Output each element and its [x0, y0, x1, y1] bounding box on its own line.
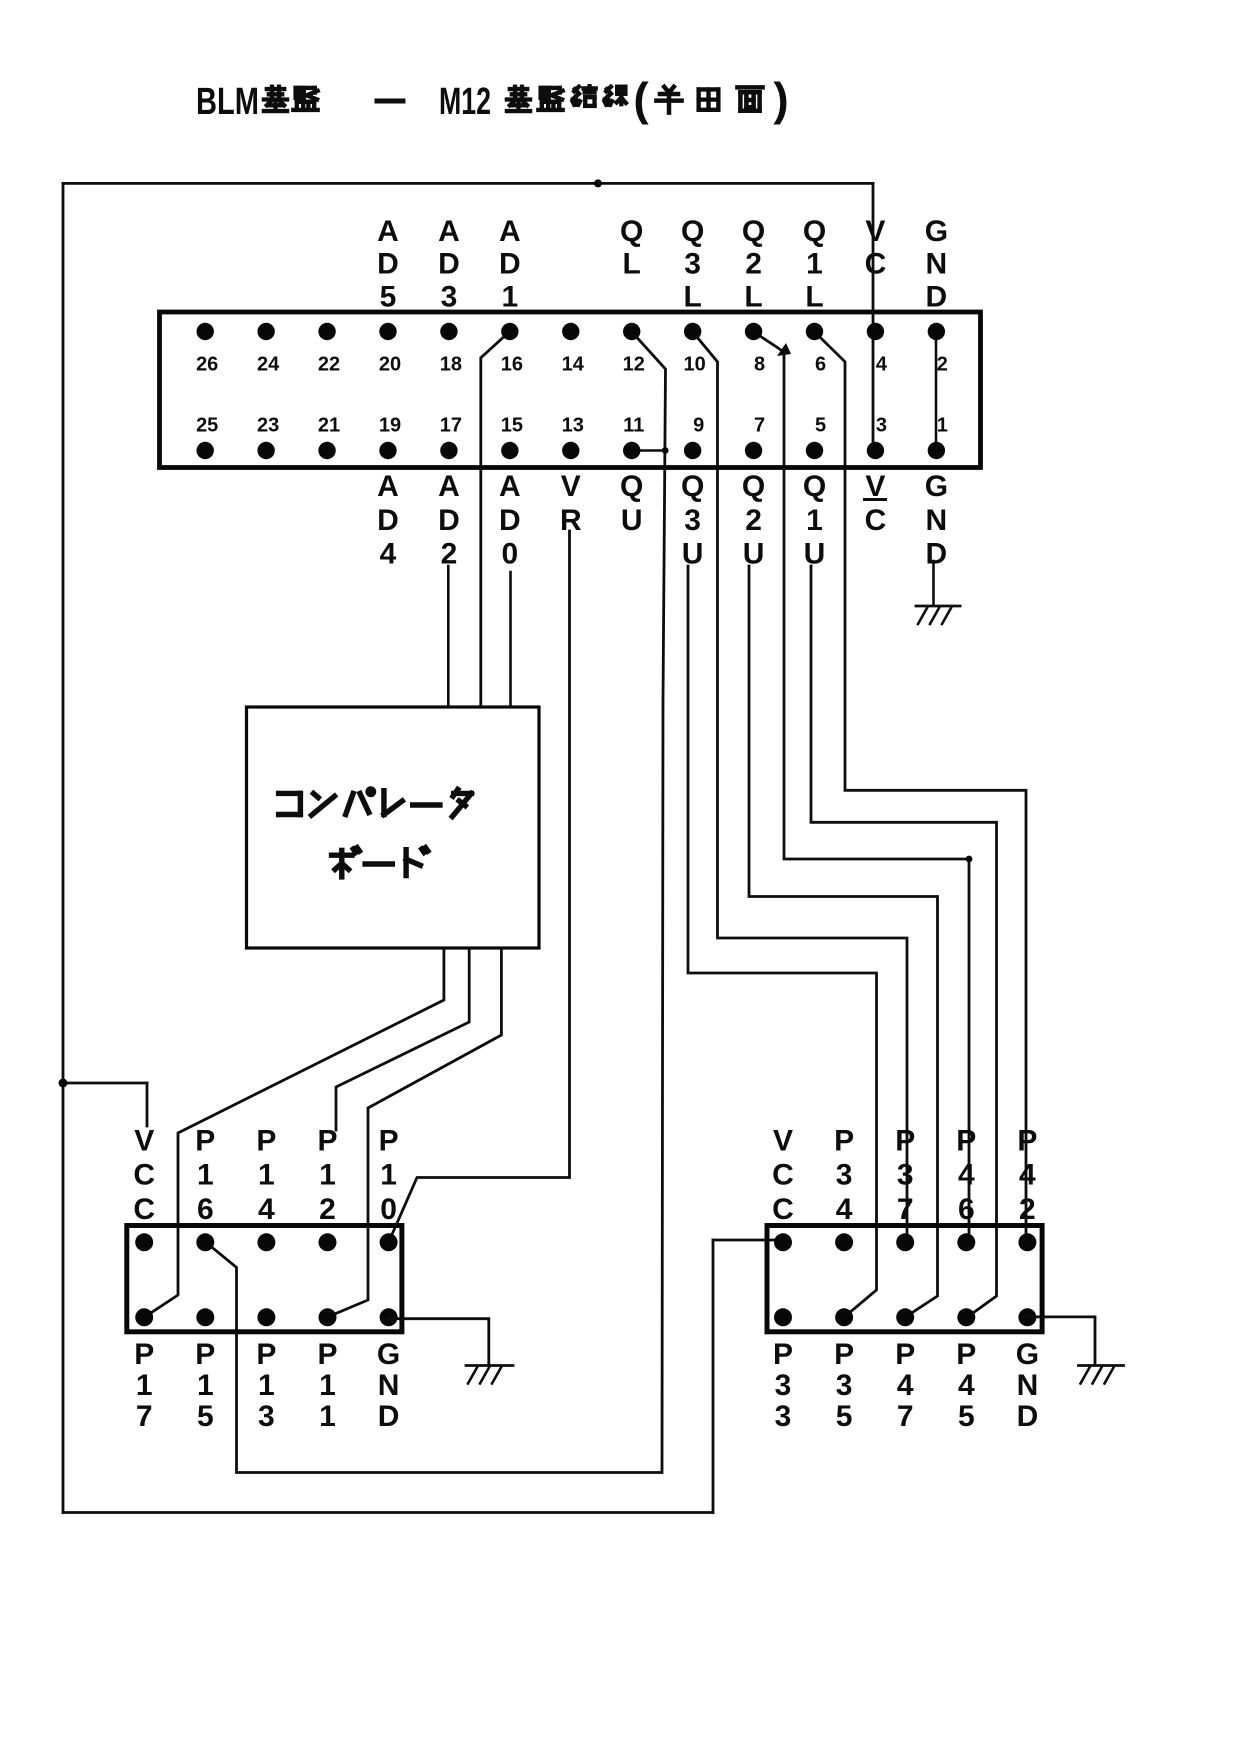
svg-text:D: D — [499, 504, 521, 537]
svg-text:1: 1 — [502, 280, 519, 313]
svg-text:U: U — [621, 504, 643, 537]
svg-text:3: 3 — [836, 1369, 853, 1402]
svg-text:G: G — [377, 1338, 400, 1371]
svg-text:Q: Q — [803, 215, 826, 248]
svg-text:2: 2 — [1019, 1193, 1036, 1226]
svg-text:3: 3 — [684, 504, 701, 537]
svg-text:6: 6 — [958, 1193, 975, 1226]
svg-text:C: C — [133, 1193, 155, 1226]
svg-text:C: C — [772, 1159, 794, 1192]
svg-text:3: 3 — [775, 1369, 792, 1402]
svg-text:4: 4 — [876, 354, 888, 376]
svg-text:Q: Q — [742, 470, 765, 503]
svg-text:0: 0 — [380, 1193, 397, 1226]
svg-text:1: 1 — [319, 1159, 336, 1192]
svg-text:D: D — [1017, 1400, 1039, 1433]
svg-text:A: A — [377, 470, 399, 503]
svg-text:P: P — [256, 1125, 276, 1158]
svg-text:4: 4 — [958, 1369, 975, 1402]
svg-text:P: P — [1017, 1125, 1037, 1158]
svg-text:P: P — [834, 1338, 854, 1371]
svg-text:26: 26 — [196, 354, 218, 376]
svg-text:L: L — [805, 280, 823, 313]
svg-text:P: P — [195, 1338, 215, 1371]
svg-text:G: G — [925, 215, 948, 248]
svg-text:A: A — [438, 470, 460, 503]
svg-text:2: 2 — [745, 504, 762, 537]
svg-text:Q: Q — [681, 215, 704, 248]
svg-text:8: 8 — [754, 354, 765, 376]
svg-text:3: 3 — [258, 1400, 275, 1433]
svg-text:L: L — [683, 280, 701, 313]
svg-text:14: 14 — [562, 354, 585, 376]
svg-text:4: 4 — [1019, 1159, 1036, 1192]
svg-text:V: V — [561, 470, 581, 503]
svg-text:3: 3 — [876, 415, 887, 437]
svg-text:1: 1 — [258, 1159, 275, 1192]
svg-text:D: D — [438, 504, 460, 537]
svg-text:N: N — [926, 248, 948, 281]
svg-text:23: 23 — [257, 415, 279, 437]
svg-text:Q: Q — [742, 215, 765, 248]
svg-text:0: 0 — [502, 538, 519, 571]
svg-text:A: A — [377, 215, 399, 248]
svg-text:D: D — [926, 538, 948, 571]
svg-text:A: A — [499, 215, 521, 248]
svg-text:15: 15 — [501, 415, 523, 437]
svg-text:1: 1 — [136, 1369, 153, 1402]
svg-text:P: P — [256, 1338, 276, 1371]
svg-text:D: D — [377, 248, 399, 281]
svg-text:2: 2 — [745, 248, 762, 281]
svg-text:24: 24 — [257, 354, 280, 376]
svg-text:7: 7 — [897, 1400, 914, 1433]
svg-text:Q: Q — [620, 470, 643, 503]
svg-text:P: P — [956, 1338, 976, 1371]
svg-text:D: D — [378, 1400, 400, 1433]
svg-text:21: 21 — [318, 415, 340, 437]
svg-text:4: 4 — [897, 1369, 914, 1402]
svg-text:C: C — [133, 1159, 155, 1192]
svg-text:L: L — [623, 248, 641, 281]
svg-text:1: 1 — [380, 1159, 397, 1192]
svg-text:3: 3 — [836, 1159, 853, 1192]
svg-text:P: P — [956, 1125, 976, 1158]
svg-text:12: 12 — [623, 354, 645, 376]
svg-text:1: 1 — [937, 415, 948, 437]
svg-text:G: G — [1016, 1338, 1039, 1371]
svg-text:2: 2 — [441, 538, 458, 571]
svg-text:): ) — [773, 73, 788, 125]
svg-text:3: 3 — [775, 1400, 792, 1433]
svg-text:13: 13 — [562, 415, 584, 437]
svg-text:4: 4 — [380, 538, 397, 571]
svg-text:1: 1 — [197, 1369, 214, 1402]
svg-text:N: N — [926, 504, 948, 537]
svg-text:P: P — [134, 1338, 154, 1371]
svg-text:17: 17 — [440, 415, 462, 437]
svg-text:5: 5 — [958, 1400, 975, 1433]
svg-text:U: U — [743, 538, 765, 571]
svg-text:C: C — [772, 1193, 794, 1226]
svg-text:A: A — [438, 215, 460, 248]
svg-text:6: 6 — [197, 1193, 214, 1226]
svg-text:M12: M12 — [439, 81, 491, 123]
svg-text:1: 1 — [197, 1159, 214, 1192]
svg-text:C: C — [865, 504, 887, 537]
svg-text:1: 1 — [319, 1400, 336, 1433]
svg-text:A: A — [499, 470, 521, 503]
svg-text:4: 4 — [258, 1193, 275, 1226]
svg-text:7: 7 — [897, 1193, 914, 1226]
svg-text:C: C — [865, 248, 887, 281]
svg-text:6: 6 — [815, 354, 826, 376]
svg-text:N: N — [378, 1369, 400, 1402]
svg-text:P: P — [317, 1125, 337, 1158]
svg-text:P: P — [895, 1338, 915, 1371]
svg-text:22: 22 — [318, 354, 340, 376]
svg-text:2: 2 — [319, 1193, 336, 1226]
svg-text:7: 7 — [754, 415, 765, 437]
svg-text:10: 10 — [684, 354, 706, 376]
svg-text:1: 1 — [806, 504, 823, 537]
svg-text:20: 20 — [379, 354, 401, 376]
svg-text:19: 19 — [379, 415, 401, 437]
svg-text:16: 16 — [501, 354, 523, 376]
svg-text:3: 3 — [684, 248, 701, 281]
svg-text:P: P — [895, 1125, 915, 1158]
svg-text:9: 9 — [693, 415, 704, 437]
svg-text:3: 3 — [441, 280, 458, 313]
svg-text:1: 1 — [319, 1369, 336, 1402]
svg-text:Q: Q — [620, 215, 643, 248]
svg-text:P: P — [317, 1338, 337, 1371]
svg-text:(: ( — [633, 73, 649, 125]
svg-text:N: N — [1017, 1369, 1039, 1402]
svg-text:D: D — [438, 248, 460, 281]
svg-text:18: 18 — [440, 354, 462, 376]
svg-text:L: L — [744, 280, 762, 313]
svg-text:P: P — [195, 1125, 215, 1158]
svg-text:U: U — [804, 538, 826, 571]
svg-text:D: D — [499, 248, 521, 281]
svg-text:2: 2 — [937, 354, 948, 376]
svg-text:U: U — [682, 538, 704, 571]
svg-text:V: V — [773, 1125, 793, 1158]
svg-text:V: V — [865, 215, 885, 248]
svg-text:P: P — [773, 1338, 793, 1371]
svg-text:5: 5 — [815, 415, 826, 437]
svg-text:5: 5 — [197, 1400, 214, 1433]
svg-text:4: 4 — [958, 1159, 975, 1192]
svg-text:5: 5 — [380, 280, 397, 313]
svg-text:BLM: BLM — [196, 81, 259, 123]
svg-text:R: R — [560, 504, 582, 537]
svg-text:11: 11 — [623, 415, 644, 437]
svg-text:1: 1 — [806, 248, 823, 281]
svg-text:Q: Q — [681, 470, 704, 503]
svg-text:3: 3 — [897, 1159, 914, 1192]
svg-text:P: P — [834, 1125, 854, 1158]
svg-text:D: D — [926, 280, 948, 313]
svg-text:5: 5 — [836, 1400, 853, 1433]
svg-text:7: 7 — [136, 1400, 153, 1433]
svg-text:25: 25 — [196, 415, 218, 437]
svg-text:1: 1 — [258, 1369, 275, 1402]
svg-text:G: G — [925, 470, 948, 503]
svg-text:V: V — [134, 1125, 154, 1158]
svg-text:P: P — [379, 1125, 399, 1158]
svg-text:4: 4 — [836, 1193, 853, 1226]
svg-text:Q: Q — [803, 470, 826, 503]
svg-text:D: D — [377, 504, 399, 537]
